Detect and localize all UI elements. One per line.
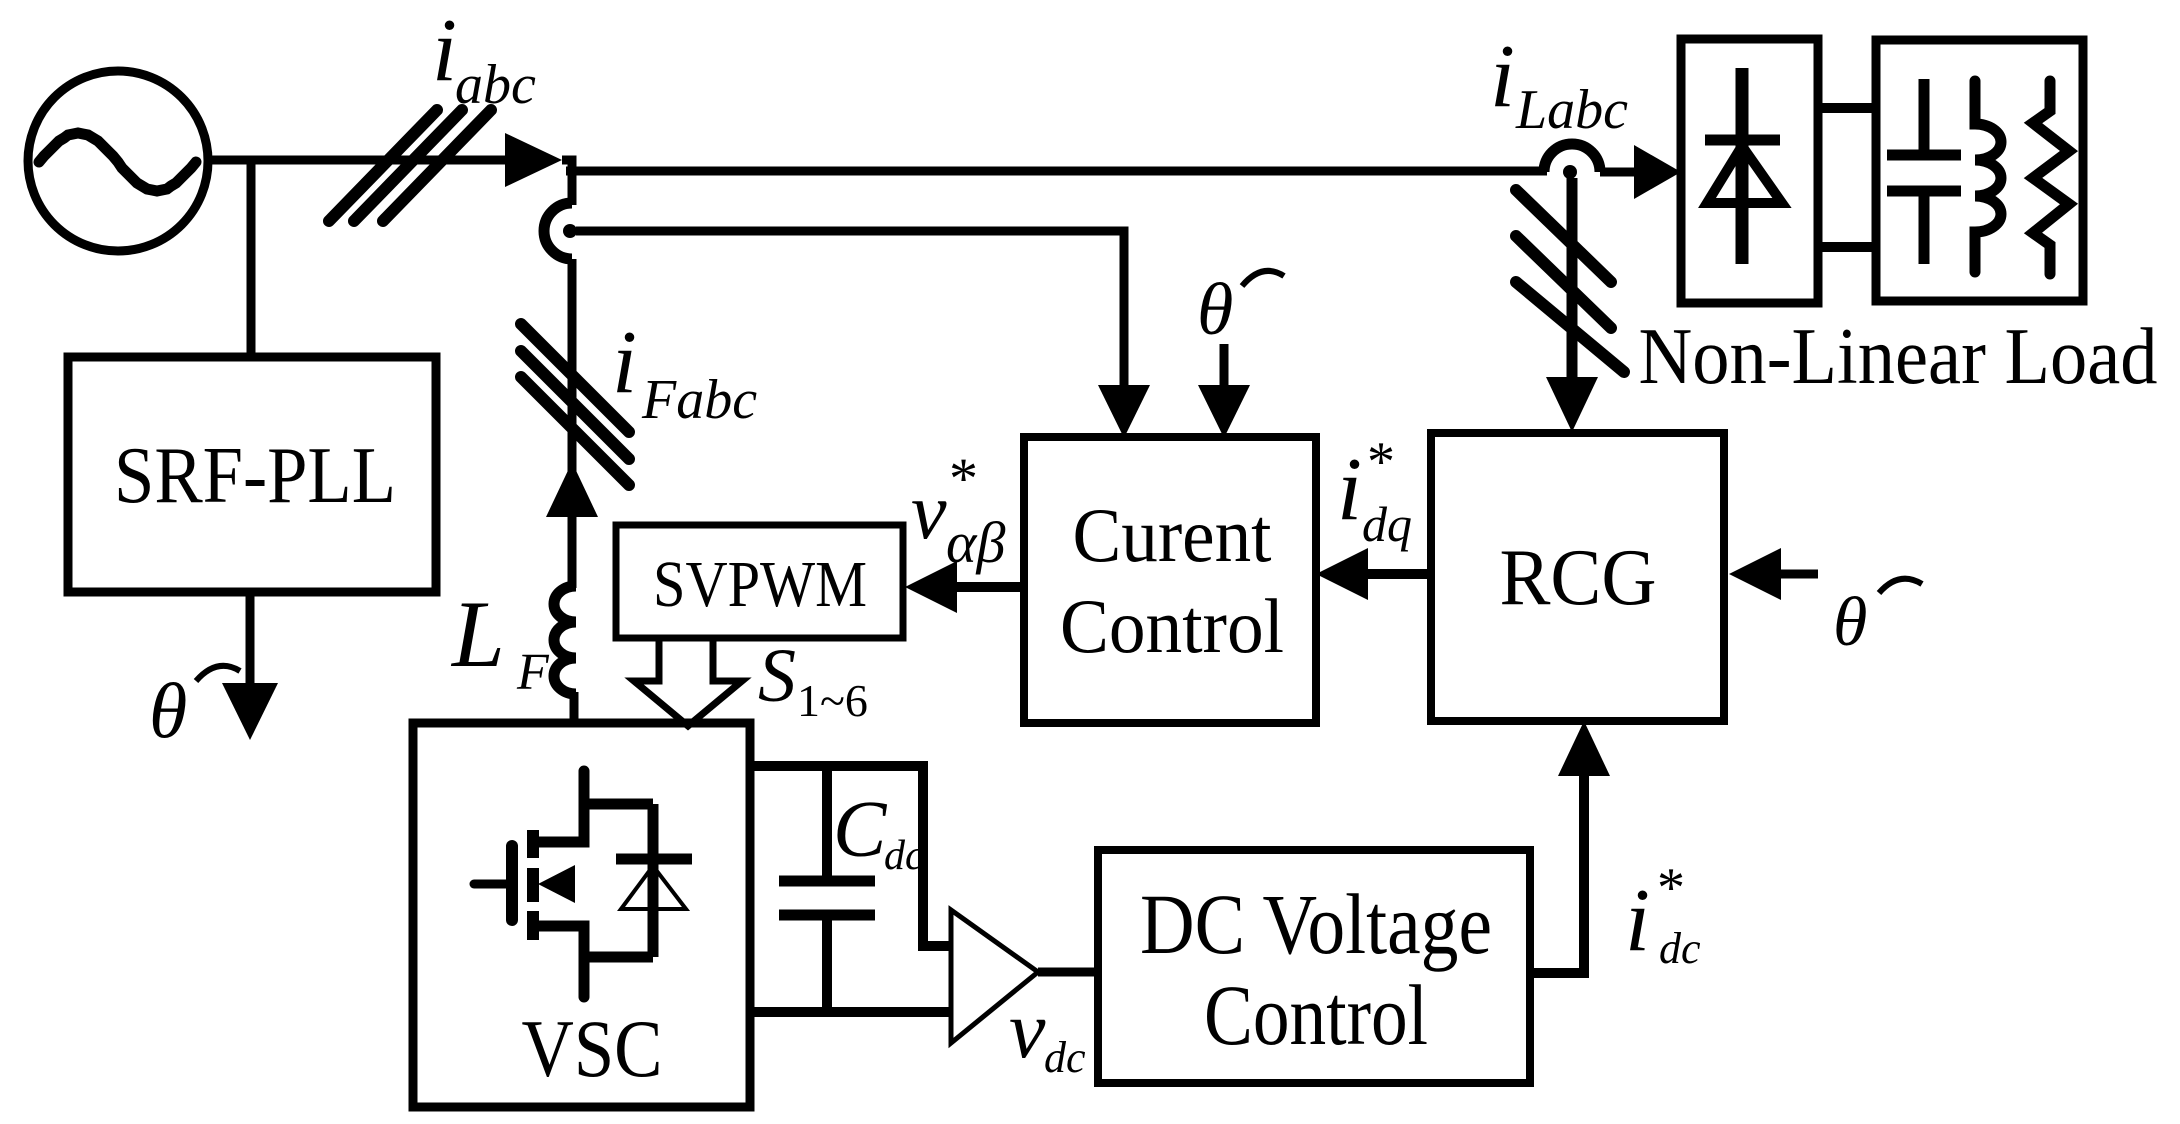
load inductor [1975, 81, 2001, 272]
svg-text:Control: Control [1060, 583, 1284, 669]
svg-text:1~6: 1~6 [797, 675, 868, 726]
SRF-PLL box [68, 357, 436, 592]
arrowhead into Curent Control (i_abc) [1098, 385, 1150, 438]
capacitor C_dc lead top [822, 766, 832, 881]
capacitor C_dc plate 1 [779, 876, 875, 887]
wire tap i_abc measurement [576, 231, 1124, 390]
svg-text:i: i [432, 1, 457, 100]
wire dc link top [750, 766, 951, 946]
load capacitor lead bottom [1919, 194, 1930, 264]
hollow arrow S1~6 [634, 638, 742, 726]
arrowhead into Curent Control (i_dq) [1316, 548, 1368, 600]
wire theta right shaft [1779, 570, 1818, 579]
hat accent (left theta) [196, 666, 240, 681]
transistor Q1 gate bar [506, 846, 518, 920]
transistor Q1 drain link [533, 771, 584, 842]
transistor Q1 channel segments [527, 830, 539, 940]
hat accent (right theta) [1879, 579, 1922, 593]
wire rectifier to load (bottom) [1818, 242, 1876, 252]
svg-text:dq: dq [1362, 496, 1412, 552]
wire v_ab arrow shaft [955, 582, 1024, 592]
wire main bus right [566, 167, 1547, 176]
DC Voltage Control box [1098, 850, 1530, 1083]
load resistor [2033, 81, 2069, 274]
svg-text:Curent: Curent [1073, 492, 1272, 578]
arrowhead i_Labc into RCG [1546, 377, 1598, 432]
svg-text:SVPWM: SVPWM [653, 548, 867, 621]
diode rectifier box [1681, 39, 1818, 303]
svg-text:DC Voltage: DC Voltage [1140, 876, 1492, 972]
svg-text:v: v [1009, 984, 1046, 1075]
svg-text:i: i [1337, 440, 1362, 539]
load capacitor plate 2 [1887, 186, 1961, 197]
wire vertical to SRF-PLL [247, 160, 256, 357]
svg-text:Labc: Labc [1515, 79, 1628, 141]
arrowhead into rectifier [1634, 145, 1681, 199]
wire Q1 to diode bottom [584, 952, 653, 963]
svg-text:dc: dc [884, 833, 924, 879]
svg-text:Control: Control [1204, 967, 1428, 1063]
svg-text:RCG: RCG [1500, 534, 1657, 622]
wire rectifier to load (top) [1818, 103, 1876, 113]
svg-text:θ: θ [149, 667, 187, 754]
svg-text:SRF-PLL: SRF-PLL [114, 432, 396, 520]
wire SRF-PLL output [246, 592, 255, 688]
freewheel diode cathode bar [616, 854, 692, 865]
svg-text:F: F [516, 644, 550, 701]
wire junction jog at PCC [562, 160, 572, 205]
RLC load box [1876, 40, 2083, 301]
transistor Q1 body arrow [538, 865, 575, 903]
VSC box [413, 723, 750, 1107]
arrowhead theta output [222, 683, 278, 740]
ac source sine wave [39, 133, 196, 191]
svg-text:θ: θ [1833, 584, 1867, 661]
svg-text:*: * [1367, 431, 1395, 493]
RCG box [1431, 433, 1724, 721]
hat accent (above Curent Control) [1242, 271, 1284, 286]
wire theta arrow shaft [1220, 344, 1229, 390]
wire i_dc output elbow [1530, 772, 1584, 973]
svg-text:*: * [1657, 857, 1685, 919]
CT hook (filter branch) [544, 203, 572, 259]
arrowhead into SVPWM (v_ab) [905, 561, 957, 613]
capacitor C_dc lead bottom [822, 915, 832, 1012]
diode D1 triangle [1707, 146, 1782, 203]
svg-text:L: L [450, 581, 505, 687]
capacitor C_dc plate 2 [779, 910, 875, 921]
wire source to arrow [208, 156, 540, 165]
wire sensor to DC Voltage Control [1038, 968, 1098, 977]
svg-text:v: v [911, 468, 947, 556]
inductor LF coil [554, 586, 576, 694]
freewheel diode triangle [621, 866, 686, 909]
transistor Q1 gate lead [474, 880, 508, 889]
freewheel diode vertical [648, 804, 659, 957]
slash group i_abc (3-phase marks) [329, 110, 491, 221]
diode D1 cathode bar [1705, 135, 1780, 146]
svg-text:dc: dc [1044, 1033, 1086, 1082]
svg-text:dc: dc [1659, 924, 1701, 973]
svg-text:Non-Linear Load: Non-Linear Load [1639, 313, 2158, 401]
load capacitor lead top [1919, 79, 1930, 152]
svg-text:VSC: VSC [522, 1003, 663, 1094]
wire load branch vertical [1567, 178, 1578, 380]
CT hook (load branch) [1544, 144, 1600, 172]
svg-text:i: i [1625, 871, 1650, 970]
wire filter branch vertical [568, 259, 577, 588]
wire to rectifier [1600, 168, 1636, 177]
Curent Control box [1024, 437, 1316, 723]
transistor Q1 source link [533, 926, 584, 997]
wire i_dq arrow shaft [1366, 569, 1431, 579]
svg-text:Fabc: Fabc [641, 369, 757, 431]
slash group i_Labc [1516, 190, 1624, 372]
arrowhead i_dc into RCG [1558, 721, 1610, 776]
arrowhead into RCG (theta right) [1729, 548, 1781, 600]
svg-text:θ: θ [1197, 269, 1233, 351]
svg-text:*: * [949, 446, 978, 511]
svg-text:S: S [758, 634, 796, 718]
svg-text:i: i [1490, 27, 1515, 126]
ac source V1 circle [28, 71, 208, 251]
slash group i_Fabc [521, 324, 629, 485]
arrowhead i_abc [505, 133, 562, 187]
wire dc link bottom [750, 1007, 951, 1017]
load capacitor plate 1 [1887, 150, 1961, 161]
wire Q1 to diode top [584, 799, 653, 810]
arrowhead theta into Curent Control [1198, 385, 1250, 438]
CT dot (filter branch) [563, 224, 577, 238]
svg-text:i: i [612, 313, 637, 412]
svg-text:C: C [833, 786, 888, 874]
CT dot (load branch) [1563, 165, 1577, 179]
diode D1 lead [1736, 68, 1749, 264]
SVPWM box [616, 525, 903, 638]
vdc sensor triangle [951, 910, 1038, 1043]
arrowhead i_Fabc (up) [546, 462, 598, 517]
svg-text:αβ: αβ [946, 510, 1005, 575]
